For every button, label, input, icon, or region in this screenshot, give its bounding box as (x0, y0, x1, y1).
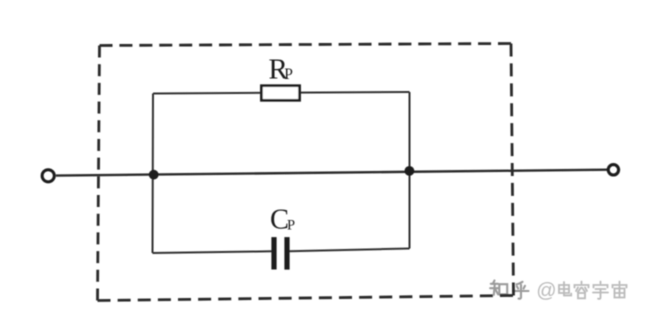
svg-text:P: P (284, 66, 293, 83)
svg-text:P: P (287, 218, 295, 234)
svg-text:@: @ (536, 280, 556, 302)
